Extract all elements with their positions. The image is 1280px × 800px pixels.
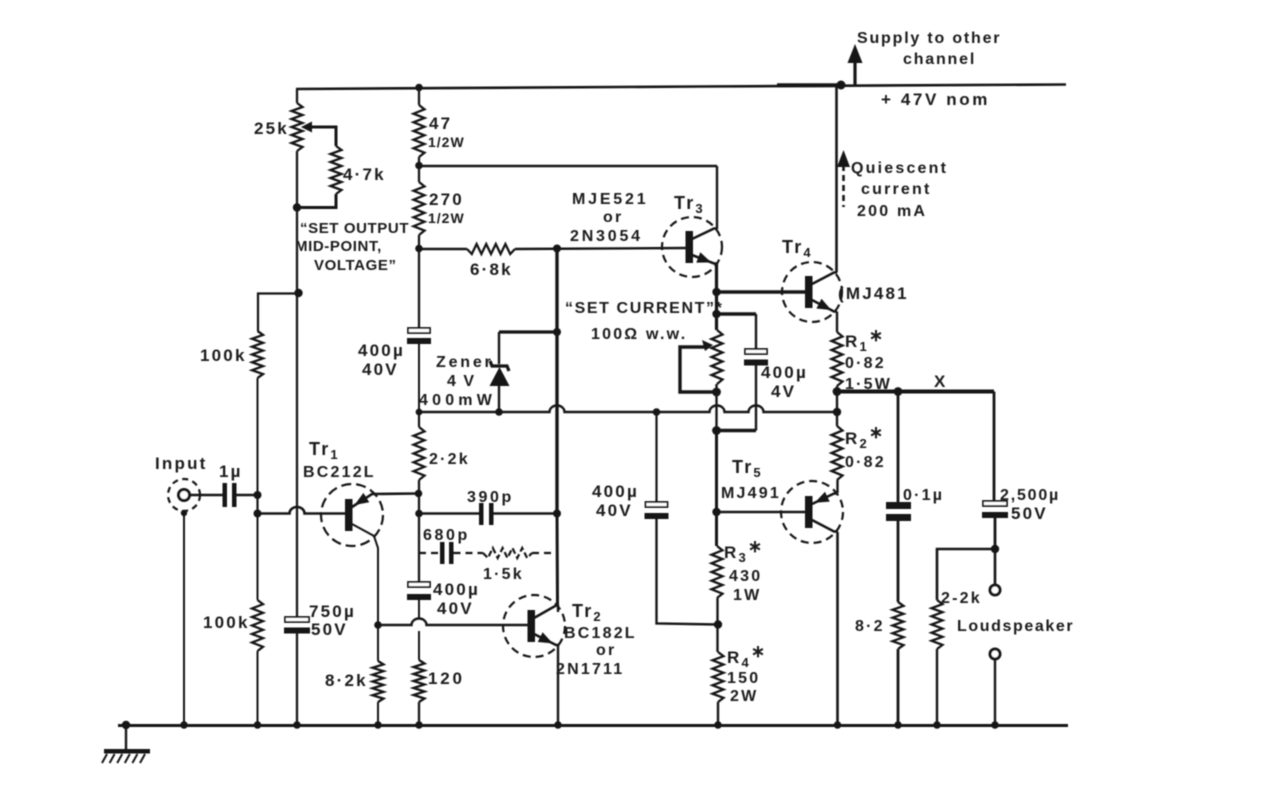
resistor R2 0.82	[832, 426, 843, 480]
node 390p junction	[415, 510, 423, 518]
resistor R1 0.82	[832, 332, 843, 386]
wire 0.1u top lead	[897, 392, 900, 503]
wire zener anode lead	[498, 384, 500, 412]
wire 8.2 to rail	[897, 649, 900, 725]
svg-text:or: or	[603, 209, 623, 226]
wire 100k top corner link	[258, 294, 297, 332]
label Quiescent	[851, 160, 948, 177]
resistor R4 150 2W	[713, 652, 724, 702]
wire R1 to X node	[836, 386, 838, 412]
label 8.2k	[325, 671, 368, 690]
wire Tr5 emitter lead	[812, 494, 838, 505]
label or Tr3	[603, 209, 623, 226]
svg-text:6·8k: 6·8k	[470, 260, 513, 279]
label 270 wattage	[428, 210, 465, 226]
label R1 value	[845, 355, 886, 372]
label 750u	[309, 602, 356, 621]
svg-text:750µ: 750µ	[309, 602, 356, 621]
svg-text:680p: 680p	[423, 527, 470, 544]
node input coupling junction	[254, 491, 262, 499]
input jack inner circle	[179, 490, 190, 501]
svg-text:Loudspeaker: Loudspeaker	[957, 618, 1074, 635]
label 400u 4V b	[771, 382, 796, 401]
wire input node down to base takeoff	[256, 495, 258, 514]
wire 25k wiper to 4.7k	[311, 127, 336, 146]
label 40V fb	[362, 360, 399, 379]
wire center cap bottom lead	[657, 519, 719, 625]
label 2.2k	[429, 451, 470, 468]
svg-text:270: 270	[429, 190, 464, 209]
node Tr2 emitter at rail	[554, 721, 562, 729]
label 2.2k output	[941, 590, 982, 607]
label Input	[155, 454, 208, 473]
node speaker link junction	[991, 545, 999, 553]
label VOLTAGE	[314, 257, 397, 274]
svg-text:400mW: 400mW	[419, 392, 496, 409]
wire Tr1 base	[258, 507, 346, 514]
wire R4 to rail	[717, 702, 719, 725]
wire Tr5 collector lead	[812, 520, 838, 532]
label R2	[845, 423, 885, 451]
label 47 wattage	[428, 134, 465, 150]
wire Tr3 emitter to Tr4 base	[717, 290, 806, 293]
wire Tr4 emitter lead	[812, 300, 837, 312]
label BC182L	[564, 625, 637, 642]
wire left vertical below 750u cap	[296, 634, 298, 726]
node zener link junction	[553, 328, 561, 336]
wire Tr2 collector lead	[534, 606, 559, 619]
wire preset bottom through rail	[715, 384, 717, 430]
node ground rail left end	[122, 721, 130, 729]
wire Tr4 emitter to R1	[836, 312, 838, 333]
node R3-R4 junction	[714, 620, 722, 628]
label 400u 4V a	[761, 363, 808, 382]
wire preset node to Tr5 base	[715, 431, 718, 547]
zener diode triangle	[490, 367, 510, 386]
wire rail to 47	[418, 88, 420, 106]
wire Tr3 emitter vertical	[715, 264, 718, 331]
transistor Tr2 base bar	[528, 610, 536, 642]
wire speaker bottom lead	[994, 659, 996, 725]
pot preset wiper arrow	[702, 340, 713, 351]
wire R2 top	[836, 412, 838, 426]
wire input jack to 1u cap	[190, 494, 223, 497]
label 270	[429, 190, 464, 209]
node center cap at mid rail	[653, 408, 661, 416]
label BC212L	[303, 464, 376, 481]
wire bias cap bottom lead	[755, 366, 757, 431]
svg-text:BC212L: BC212L	[303, 464, 376, 481]
resistor 6.8k	[467, 244, 515, 254]
svg-text:40V: 40V	[437, 599, 474, 618]
resistor 270 1/2W	[414, 182, 425, 235]
svg-text:8·2: 8·2	[855, 618, 885, 635]
wire 680p left dashed	[419, 552, 440, 554]
label 47	[429, 114, 452, 133]
svg-text:Quiescent: Quiescent	[851, 160, 948, 177]
transistor Tr3 circle	[662, 217, 722, 277]
node Tr5 base junction	[712, 508, 720, 516]
node 390p right junction	[553, 510, 561, 518]
label +47V nom	[881, 90, 990, 109]
svg-text:400µ: 400µ	[592, 482, 639, 501]
wire top rail overdraw segment	[777, 83, 841, 87]
node mid rail right end	[833, 408, 841, 416]
label 40V em	[437, 599, 474, 618]
wire driver collector branch	[419, 165, 717, 167]
node preset bottom junction	[712, 388, 721, 397]
capacitor 1u input plates	[223, 483, 237, 507]
svg-text:Zener: Zener	[436, 354, 494, 371]
wire preset wiper loop	[680, 347, 714, 392]
svg-text:400µ: 400µ	[358, 341, 405, 360]
node bias cap junction	[712, 310, 720, 318]
loudspeaker bottom terminal	[990, 649, 1000, 659]
wire 100k lower to rail	[257, 651, 259, 725]
wire X corner to 2500u	[993, 392, 996, 502]
wire X output line	[837, 390, 994, 394]
wire Tr3 collector riser	[716, 166, 718, 229]
resistor 100k lower	[252, 600, 263, 651]
wire R3 to R4	[716, 598, 718, 652]
node 270-6.8k junction	[415, 245, 423, 253]
pot 25k wiper arrow	[301, 122, 312, 133]
node X to 0.1u junction	[894, 387, 903, 396]
label Zener	[436, 354, 494, 371]
svg-text:1µ: 1µ	[219, 462, 243, 481]
capacitor 400u 40V feedback	[407, 328, 431, 344]
transistor Tr5 circle	[781, 481, 843, 543]
label 200mA	[857, 203, 927, 220]
transistor Tr4 circle	[782, 262, 842, 322]
resistor 25k (potentiometer track)	[292, 103, 303, 151]
label Tr2	[572, 601, 603, 624]
svg-text:390p: 390p	[467, 489, 514, 506]
wire supply vertical to Tr4	[835, 85, 838, 273]
resistor 2.2k	[414, 427, 425, 480]
node junction 100k top corner	[294, 289, 302, 297]
input jack outer circle	[168, 479, 200, 511]
capacitor 0.1u	[886, 502, 911, 521]
node junction 4.7k return on left vertical	[293, 203, 301, 211]
wire 47 to 270	[418, 157, 420, 182]
svg-text:2N1711: 2N1711	[556, 661, 624, 678]
label Supply to other	[857, 30, 1001, 47]
node 47 top at rail	[415, 84, 423, 92]
wire 1.5k right dashed	[532, 552, 557, 554]
node X junction	[833, 387, 842, 396]
transistor Tr5 base bar	[805, 496, 813, 528]
node mid rail left end	[416, 409, 423, 416]
label R1 wattage	[845, 376, 892, 393]
svg-text:1W: 1W	[733, 587, 761, 604]
label 100k lower	[203, 613, 250, 632]
svg-text:2·2k: 2·2k	[429, 451, 470, 468]
label zener 400mW	[419, 392, 496, 409]
svg-text:4 V: 4 V	[447, 373, 476, 390]
label 1u	[219, 462, 243, 481]
label MID-POINT	[295, 238, 382, 255]
svg-text:Input: Input	[155, 454, 208, 473]
svg-text:430: 430	[729, 568, 762, 585]
node left vertical at ground rail	[293, 721, 301, 729]
wire 6.8k to Tr3 base	[515, 248, 686, 249]
quiescent current arrow	[837, 150, 850, 207]
svg-text:200 mA: 200 mA	[857, 203, 927, 220]
wire speaker 2.2k link	[937, 549, 995, 600]
wire 400u cap to 120	[418, 600, 420, 660]
wire 8.2k to rail	[377, 702, 379, 725]
label 100ohm ww	[591, 326, 687, 343]
svg-text:MJE521: MJE521	[572, 191, 648, 208]
wire mid rail	[419, 406, 837, 413]
wire 390p left	[419, 512, 479, 514]
wire ground stub	[125, 725, 127, 750]
wire bottom ground rail	[118, 724, 1068, 727]
wire 2500u to speaker node	[994, 518, 997, 549]
wire 2.2k to emitter node	[418, 480, 420, 553]
resistor 4.7k	[331, 146, 342, 194]
svg-text:47: 47	[429, 114, 452, 133]
transistor Tr2 circle	[503, 595, 565, 657]
wire R2 to Tr5 emitter	[836, 480, 838, 493]
node zener at mid rail	[495, 408, 503, 416]
wire 100k upper to input node	[257, 378, 259, 495]
wire 4.7k bottom return	[298, 194, 336, 208]
node 8.2 at rail	[894, 721, 902, 729]
transistor Tr1 base bar	[345, 499, 353, 531]
svg-text:MID-POINT,: MID-POINT,	[295, 238, 382, 255]
resistor 8.2k	[373, 661, 384, 702]
label 2N1711	[556, 661, 624, 678]
wire Tr3 collector lead	[692, 229, 717, 240]
label R1	[845, 326, 885, 354]
svg-text:150: 150	[727, 670, 760, 687]
svg-text:40V: 40V	[362, 360, 399, 379]
label 4.7k	[343, 165, 386, 184]
label R4 value	[727, 670, 760, 687]
label MJ491	[721, 485, 781, 502]
svg-text:120: 120	[428, 669, 465, 688]
label 100k upper	[200, 346, 247, 365]
wire bias cap link	[717, 312, 757, 315]
wire mid rail left to 2.2k	[418, 412, 420, 427]
capacitor 400u 4V	[744, 349, 768, 366]
node Tr1 emitter junction	[415, 490, 423, 498]
wire Tr1 collector vertical	[377, 548, 379, 661]
label Loudspeaker	[957, 618, 1074, 635]
node 6.8k vertical junction	[553, 245, 561, 253]
wire emitter node to 400u cap	[418, 553, 420, 582]
label R4 wattage	[730, 688, 758, 705]
node Tr2 base left junction	[374, 621, 382, 629]
svg-text:or: or	[596, 642, 616, 659]
svg-text:100Ω w.w.: 100Ω w.w.	[591, 326, 687, 343]
label R2 value	[845, 454, 886, 471]
node 47-270 junction	[415, 162, 423, 170]
svg-text:4V: 4V	[771, 382, 796, 401]
wire 390p right	[494, 512, 558, 514]
label 680p	[423, 527, 470, 544]
svg-text:“SET CURRENT”*: “SET CURRENT”*	[565, 300, 723, 317]
resistor 100k upper	[252, 331, 263, 378]
svg-text:400µ: 400µ	[761, 363, 808, 382]
svg-text:1/2W: 1/2W	[428, 210, 465, 226]
capacitor 750u 50V	[284, 617, 310, 634]
node input jack ground tap	[181, 510, 187, 516]
label R3 value	[729, 568, 762, 585]
wire Tr2 base	[378, 619, 528, 626]
transistor Tr3 emitter arrow	[696, 252, 711, 262]
label 2N3054	[570, 228, 643, 245]
svg-text:0·82: 0·82	[845, 355, 886, 372]
wire top supply rail +47V	[296, 85, 1066, 90]
wire left vertical from top rail	[296, 89, 298, 103]
svg-text:1·5k: 1·5k	[483, 566, 524, 583]
svg-text:+ 47V nom: + 47V nom	[881, 90, 990, 109]
label 400u fb	[358, 341, 405, 360]
node Tr3-Tr4 junction	[712, 288, 720, 296]
node 120 at rail	[415, 721, 423, 729]
wire input node to 100k lower	[257, 514, 259, 601]
transistor Tr1 emitter arrow	[355, 493, 370, 505]
label 40V center	[596, 501, 633, 520]
svg-text:100k: 100k	[203, 613, 250, 632]
label 400u center	[592, 482, 639, 501]
wire left vertical 25k to 750u cap	[296, 151, 298, 617]
label R3 wattage	[733, 587, 761, 604]
resistor 8.2 zobel	[893, 602, 904, 649]
wire Tr5 collector to rail	[836, 532, 839, 725]
label 6.8k	[470, 260, 513, 279]
svg-text:2W: 2W	[730, 688, 758, 705]
svg-text:“SET OUTPUT: “SET OUTPUT	[300, 220, 409, 237]
label 0.1u	[903, 487, 944, 504]
transistor Tr4 base bar	[805, 276, 813, 308]
svg-text:current: current	[861, 181, 932, 198]
label 120	[428, 669, 465, 688]
label 2500u 50V	[1011, 504, 1048, 523]
label 8.2	[855, 618, 885, 635]
resistor 100ohm preset	[712, 330, 723, 384]
node 100k lower at rail	[254, 721, 262, 729]
wire 270 to cap	[418, 235, 420, 328]
node input ground at rail	[180, 721, 188, 729]
svg-text:X: X	[934, 372, 948, 391]
capacitor 400u 40V center	[645, 502, 669, 519]
wire 2.2k output to rail	[936, 649, 938, 725]
label channel	[903, 51, 976, 68]
node 2.2k output at rail	[933, 721, 941, 729]
label MJE521	[572, 191, 648, 208]
label Tr1	[309, 439, 340, 462]
node R4 at rail	[714, 721, 722, 729]
label 25k	[254, 119, 289, 138]
svg-text:8·2k: 8·2k	[325, 671, 368, 690]
svg-text:MJ491: MJ491	[721, 485, 781, 502]
label SET OUTPUT	[300, 220, 409, 237]
svg-text:4·7k: 4·7k	[343, 165, 386, 184]
resistor 1.5k dashed	[483, 548, 532, 558]
svg-text:0·1µ: 0·1µ	[903, 487, 944, 504]
supply arrow to other channel	[848, 44, 863, 85]
wire Tr5 base	[718, 511, 805, 514]
node supply rail junction	[837, 81, 846, 90]
label 2500u	[1000, 487, 1060, 504]
resistor 47 1/2W	[414, 105, 425, 157]
resistor 120	[414, 660, 425, 702]
wire 120 to rail	[418, 702, 420, 725]
node speaker bottom at rail	[991, 721, 999, 729]
label R4	[727, 642, 767, 670]
capacitor 400u 40V emitter	[407, 582, 431, 600]
svg-text:400µ: 400µ	[433, 580, 480, 599]
wire preset-cap bottom link	[717, 429, 757, 432]
label MJ481	[838, 284, 909, 303]
svg-text:VOLTAGE”: VOLTAGE”	[314, 257, 397, 274]
label current	[861, 181, 932, 198]
wire Tr4 collector lead	[812, 273, 837, 285]
svg-text:100k: 100k	[200, 346, 247, 365]
wire speaker top lead	[994, 549, 997, 585]
svg-text:2,500µ: 2,500µ	[1000, 487, 1060, 504]
svg-text:(MJ481: (MJ481	[838, 284, 909, 303]
wire Tr1 collector lead	[352, 524, 378, 625]
label X	[934, 372, 948, 391]
capacitor 390p plates	[479, 503, 494, 525]
wire Tr2 collector vertical	[557, 605, 559, 612]
node base wire takeoff	[254, 510, 262, 518]
wire Tr2 emitter lead	[534, 634, 559, 645]
svg-text:50V: 50V	[311, 620, 348, 639]
svg-text:Supply to other: Supply to other	[857, 30, 1001, 47]
wire center cap top lead	[655, 412, 657, 502]
transistor Tr3 base bar	[686, 231, 694, 263]
svg-text:BC182L: BC182L	[564, 625, 637, 642]
wire 1u cap to input node	[237, 494, 258, 497]
label 50V	[311, 620, 348, 639]
wire feedback vertical lower	[556, 514, 560, 605]
svg-text:25k: 25k	[254, 119, 289, 138]
transistor Tr4 emitter arrow	[816, 299, 831, 310]
label zener 4V	[447, 373, 476, 390]
wire bias cap top lead	[755, 314, 757, 349]
wire Tr1 emitter lead	[352, 494, 418, 508]
wire feedback vertical upper	[555, 249, 558, 514]
node Tr5 collector at rail	[834, 721, 842, 729]
capacitor 2500u 50V	[982, 501, 1008, 518]
wire zener cathode lead	[498, 332, 500, 364]
wire 270 junction to 6.8k	[419, 248, 467, 250]
wire 680p to 1.5k dashed	[454, 552, 484, 554]
label Tr4	[782, 237, 813, 260]
svg-text:50V: 50V	[1011, 504, 1048, 523]
label 1.5k	[483, 566, 524, 583]
capacitor 680p plates	[440, 542, 454, 564]
wire Tr2 emitter to rail	[557, 645, 559, 725]
wire input jack to ground rail	[183, 513, 185, 725]
wire 0.1u to 8.2	[897, 521, 900, 602]
zener diode cathode bar	[490, 361, 509, 371]
resistor 2.2k output	[932, 600, 943, 649]
svg-text:0·82: 0·82	[845, 454, 886, 471]
svg-text:2N3054: 2N3054	[570, 228, 643, 245]
label Tr5	[732, 457, 763, 480]
svg-text:1/2W: 1/2W	[428, 134, 465, 150]
label R3	[724, 537, 764, 565]
wire Tr3 emitter lead	[692, 255, 717, 264]
label 400u em	[433, 580, 480, 599]
